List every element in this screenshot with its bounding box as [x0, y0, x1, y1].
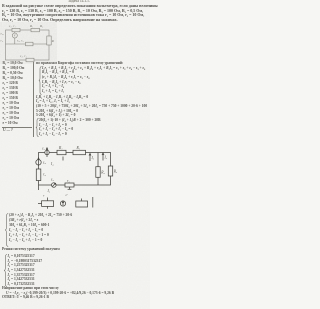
resistor R5 — [96, 167, 100, 178]
resistor R1 top — [12, 28, 20, 32]
resistor R2 (top) — [73, 150, 86, 154]
circuit #2 (solution figure) — [30, 142, 125, 212]
problem paragraph — [2, 4, 158, 8]
resistor R right — [47, 36, 51, 45]
arrow I2 — [62, 157, 64, 161]
dano rule — [2, 126, 32, 129]
wire outer loop — [6, 30, 50, 60]
ground mark under r3 — [69, 187, 71, 189]
scan noise overlay — [0, 0, 150, 309]
resistor r4 bottom — [26, 58, 34, 62]
system 2 brace — [35, 118, 40, 137]
middle equations — [36, 96, 88, 100]
dano divider — [32, 62, 35, 137]
resistor R2 top — [31, 28, 40, 32]
source e (equiv) — [60, 201, 65, 206]
wire outer loop — [39, 153, 111, 186]
resistor r4 (left) — [36, 169, 41, 181]
arrow I5 — [89, 154, 91, 161]
resistor R (equiv) — [76, 201, 88, 207]
system 4 brace — [3, 254, 9, 287]
circuit #1 (problem figure) — [0, 22, 56, 64]
resistor R1 (top) — [57, 150, 66, 154]
system 1 brace — [38, 66, 43, 95]
solution heading — [36, 62, 123, 66]
source e1 (top) — [45, 150, 49, 154]
wire branch R5 — [97, 153, 99, 186]
equivalent row — [38, 192, 98, 212]
dano column — [3, 62, 23, 66]
arrow I6 — [102, 154, 104, 161]
source e2 r2 middle — [26, 42, 34, 46]
header tiny — [68, 0, 90, 4]
voltmeter V — [12, 33, 17, 38]
source e4 (left) — [36, 160, 41, 165]
wire into r (equiv) — [38, 203, 42, 205]
wire voltmeter branch — [14, 30, 16, 44]
wire middle branch — [6, 43, 50, 45]
resistor r (equiv) — [42, 201, 54, 207]
resistor R6 (right edge) — [108, 166, 112, 176]
resistor r3 (bottom) — [65, 183, 74, 187]
source e3 (bottom) — [52, 183, 57, 188]
system 3 brace — [4, 213, 10, 247]
terminal bar — [92, 197, 94, 208]
wire stub below left corner — [38, 185, 40, 190]
